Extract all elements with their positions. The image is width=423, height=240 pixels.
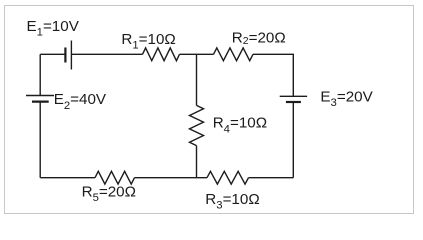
wire: middle vertical lower: [196, 146, 198, 178]
svg-text:E3=20V: E3=20V: [320, 89, 373, 110]
node: top middle junction: [196, 54, 198, 105]
wire: bottom-right segment: [249, 177, 294, 179]
wire: left vertical lower: [39, 102, 41, 178]
resistor R2: [214, 48, 254, 61]
battery E2: [26, 96, 54, 102]
wire: top-left segment: [40, 53, 65, 55]
resistor R1: [143, 48, 180, 61]
svg-text:R3=10Ω: R3=10Ω: [205, 191, 259, 212]
svg-text:E2=40V: E2=40V: [54, 91, 107, 112]
wire: top between R1 and R2: [180, 53, 214, 55]
battery E1: [65, 41, 71, 70]
wire: bottom middle segment: [135, 177, 208, 179]
resistor R4: [190, 105, 204, 145]
wire: left vertical upper: [39, 54, 41, 95]
wire: top-right segment: [253, 54, 293, 96]
wire: right vertical lower: [292, 102, 294, 178]
wire: bottom-left segment: [40, 177, 95, 179]
svg-text:R4=10Ω: R4=10Ω: [213, 115, 267, 136]
svg-text:R5=20Ω: R5=20Ω: [82, 184, 136, 205]
wire: top between E1 and R1: [71, 53, 142, 55]
resistor R5: [95, 171, 135, 184]
battery E3: [280, 96, 307, 102]
svg-text:R2=20Ω: R2=20Ω: [232, 30, 286, 47]
svg-text:E1=10V: E1=10V: [27, 18, 80, 39]
svg-text:R1=10Ω: R1=10Ω: [121, 31, 175, 52]
resistor R3: [207, 171, 249, 184]
